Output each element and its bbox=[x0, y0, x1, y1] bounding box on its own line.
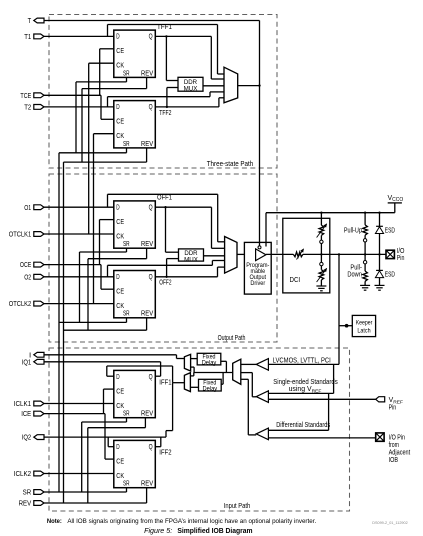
svg-text:REV: REV bbox=[141, 409, 153, 418]
svg-text:SR: SR bbox=[123, 68, 130, 77]
svg-text:Q: Q bbox=[149, 442, 153, 451]
svg-text:OTCLK2: OTCLK2 bbox=[9, 299, 31, 308]
svg-text:TFF2: TFF2 bbox=[159, 108, 171, 117]
svg-text:D: D bbox=[116, 102, 119, 111]
svg-text:ICLK1: ICLK1 bbox=[14, 399, 32, 408]
svg-text:TCE: TCE bbox=[20, 91, 31, 100]
svg-text:Pin: Pin bbox=[397, 255, 405, 262]
svg-text:REV: REV bbox=[141, 479, 153, 488]
svg-text:D: D bbox=[116, 32, 119, 41]
svg-text:MUX: MUX bbox=[184, 85, 199, 92]
svg-text:Pull-Up: Pull-Up bbox=[344, 227, 362, 234]
svg-text:Q: Q bbox=[149, 202, 153, 211]
svg-text:REV: REV bbox=[141, 68, 153, 77]
svg-text:SR: SR bbox=[123, 309, 130, 318]
svg-text:All IOB signals originating fr: All IOB signals originating from the FPG… bbox=[67, 518, 316, 525]
svg-text:Note:: Note: bbox=[47, 518, 62, 525]
svg-text:REV: REV bbox=[141, 139, 153, 148]
svg-text:IOB: IOB bbox=[389, 457, 399, 464]
svg-text:DS099-2_01_112902: DS099-2_01_112902 bbox=[372, 520, 408, 525]
svg-text:Delay: Delay bbox=[203, 385, 218, 392]
svg-text:OFF2: OFF2 bbox=[159, 278, 171, 287]
svg-text:SR: SR bbox=[123, 409, 130, 418]
svg-text:Three-state Path: Three-state Path bbox=[207, 159, 254, 168]
svg-text:Differential Standards: Differential Standards bbox=[276, 422, 330, 429]
svg-text:REV: REV bbox=[141, 239, 153, 248]
svg-text:O2: O2 bbox=[24, 272, 31, 281]
svg-text:Delay: Delay bbox=[202, 359, 217, 366]
svg-text:IQ1: IQ1 bbox=[22, 357, 32, 366]
svg-text:ESD: ESD bbox=[385, 227, 395, 234]
svg-text:LVCMOS, LVTTL, PCI: LVCMOS, LVTTL, PCI bbox=[273, 358, 331, 365]
svg-text:Output Path: Output Path bbox=[218, 333, 246, 342]
svg-text:Down: Down bbox=[347, 272, 362, 279]
svg-text:Pull-: Pull- bbox=[350, 265, 362, 272]
svg-text:Figure 5:: Figure 5: bbox=[144, 526, 172, 535]
svg-text:TFF1: TFF1 bbox=[157, 22, 172, 31]
svg-text:Single-ended Standards: Single-ended Standards bbox=[273, 379, 338, 386]
svg-text:T2: T2 bbox=[24, 103, 31, 112]
svg-text:I/O Pin: I/O Pin bbox=[389, 435, 406, 442]
svg-text:Q: Q bbox=[149, 32, 153, 41]
svg-text:REV: REV bbox=[141, 309, 153, 318]
svg-text:Q: Q bbox=[149, 102, 153, 111]
svg-text:CE: CE bbox=[116, 217, 124, 226]
svg-text:OTCLK1: OTCLK1 bbox=[9, 230, 31, 239]
svg-text:VCCO: VCCO bbox=[388, 195, 404, 203]
svg-text:ICE: ICE bbox=[21, 409, 31, 418]
svg-text:Simplified IOB Diagram: Simplified IOB Diagram bbox=[177, 526, 252, 535]
svg-text:ESD: ESD bbox=[385, 272, 395, 279]
svg-text:OCE: OCE bbox=[20, 260, 31, 269]
svg-text:DCI: DCI bbox=[290, 275, 301, 284]
svg-text:Q: Q bbox=[149, 272, 153, 281]
svg-text:Pin: Pin bbox=[389, 404, 397, 411]
svg-text:D: D bbox=[116, 372, 119, 381]
svg-text:CE: CE bbox=[116, 287, 124, 296]
svg-text:T1: T1 bbox=[24, 32, 31, 41]
svg-text:SR: SR bbox=[123, 239, 130, 248]
svg-text:Q: Q bbox=[149, 372, 153, 381]
svg-text:MUX: MUX bbox=[184, 256, 199, 263]
svg-text:SR: SR bbox=[23, 488, 32, 497]
svg-text:T: T bbox=[28, 16, 32, 25]
svg-text:I/O: I/O bbox=[397, 248, 405, 255]
svg-text:D: D bbox=[116, 442, 119, 451]
svg-text:O1: O1 bbox=[24, 203, 31, 212]
svg-text:CE: CE bbox=[116, 456, 124, 465]
svg-text:REV: REV bbox=[19, 499, 32, 508]
svg-text:IFF1: IFF1 bbox=[159, 378, 171, 387]
svg-text:IQ2: IQ2 bbox=[22, 433, 32, 442]
svg-text:from: from bbox=[389, 442, 400, 449]
svg-text:Keeper: Keeper bbox=[356, 319, 373, 326]
svg-text:Adjacent: Adjacent bbox=[389, 450, 411, 457]
svg-text:Input Path: Input Path bbox=[224, 501, 251, 510]
svg-text:D: D bbox=[116, 272, 119, 281]
svg-text:CE: CE bbox=[116, 386, 124, 395]
svg-text:CE: CE bbox=[116, 46, 124, 55]
svg-text:D: D bbox=[116, 202, 119, 211]
svg-text:SR: SR bbox=[123, 479, 130, 488]
svg-text:IFF2: IFF2 bbox=[159, 448, 171, 457]
svg-text:Driver: Driver bbox=[250, 280, 266, 287]
svg-text:Latch: Latch bbox=[357, 327, 370, 334]
svg-text:ICLK2: ICLK2 bbox=[14, 469, 32, 478]
svg-text:CE: CE bbox=[116, 117, 124, 126]
svg-text:SR: SR bbox=[123, 139, 130, 148]
